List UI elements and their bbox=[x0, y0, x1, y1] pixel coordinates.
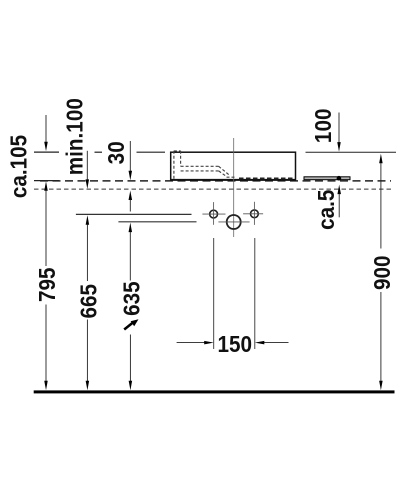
bottom reference tick 2 left bbox=[34, 180, 59, 182]
dimension 150 line right tail with arrow bbox=[264, 342, 289, 344]
dimension ca.105 upper arrow bbox=[45, 115, 47, 143]
center big circle bbox=[227, 215, 241, 229]
svg-text:635: 635 bbox=[119, 281, 145, 316]
shelf line A bbox=[76, 213, 192, 215]
svg-text:795: 795 bbox=[34, 267, 60, 302]
svg-text:665: 665 bbox=[75, 284, 101, 319]
dimension 30 bbox=[129, 141, 131, 172]
basin top reference tick 1 left bbox=[34, 151, 59, 153]
dimension 665 bbox=[86, 215, 90, 225]
dimension min.100 bbox=[86, 151, 88, 181]
shelf line B bbox=[118, 221, 196, 223]
dashed counter line 2 bbox=[34, 188, 391, 190]
basin top reference line right bbox=[306, 151, 397, 153]
svg-text:30: 30 bbox=[103, 141, 129, 164]
drain bottom dashed thick bbox=[239, 177, 293, 179]
dimension ca.5 bbox=[337, 185, 341, 195]
faucet hole left circle bbox=[210, 210, 218, 218]
extension line left for 150 bbox=[213, 238, 215, 349]
svg-text:ca.5: ca.5 bbox=[313, 190, 339, 230]
svg-text:150: 150 bbox=[218, 331, 253, 357]
extension line right for 150 bbox=[254, 238, 256, 349]
dimension 900 bbox=[379, 154, 383, 164]
basin top reference segment 2 bbox=[95, 151, 103, 153]
svg-text:min.100: min.100 bbox=[61, 98, 87, 175]
basin top reference segment 3 bbox=[137, 151, 166, 153]
floor line bbox=[34, 390, 395, 393]
dimension 150 line left tail with arrow bbox=[177, 342, 205, 344]
dimension 795 line upper arrow bbox=[44, 181, 48, 191]
mid up arrow at console line bbox=[129, 191, 133, 201]
faucet hole right circle bbox=[251, 210, 259, 218]
leader slant arrow for 635 bbox=[124, 323, 133, 330]
drain outline dashed bbox=[174, 151, 236, 180]
dimension 100 bbox=[338, 113, 340, 144]
svg-text:ca.105: ca.105 bbox=[6, 135, 32, 198]
countertop slab right bbox=[304, 177, 350, 180]
svg-text:100: 100 bbox=[310, 109, 336, 144]
svg-text:900: 900 bbox=[369, 255, 395, 290]
basin center line bbox=[233, 138, 235, 237]
basin outline bbox=[171, 152, 296, 180]
slab node dot bbox=[337, 176, 342, 181]
dashed counter line 1 bbox=[40, 180, 391, 182]
dimension 635 bbox=[129, 223, 133, 233]
